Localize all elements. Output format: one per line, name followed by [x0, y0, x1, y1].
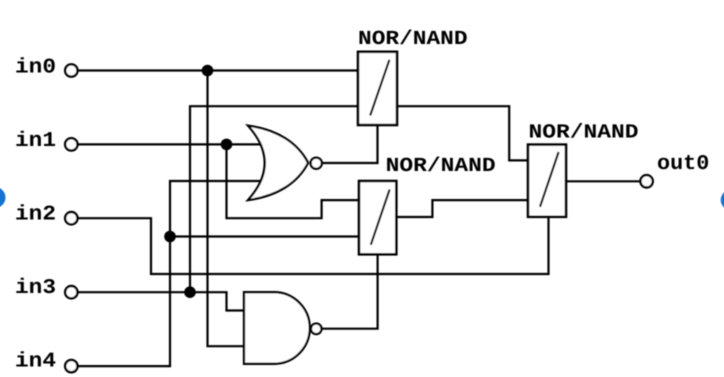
svg-text:NOR/NAND: NOR/NAND — [358, 28, 468, 51]
svg-text:NOR/NAND: NOR/NAND — [386, 155, 496, 178]
svg-text:in1: in1 — [15, 130, 56, 153]
svg-text:out0: out0 — [657, 153, 709, 176]
svg-text:in0: in0 — [15, 57, 56, 80]
svg-text:in3: in3 — [15, 277, 56, 300]
svg-text:in4: in4 — [15, 350, 56, 373]
svg-text:in2: in2 — [15, 204, 56, 227]
svg-text:NOR/NAND: NOR/NAND — [529, 122, 639, 145]
